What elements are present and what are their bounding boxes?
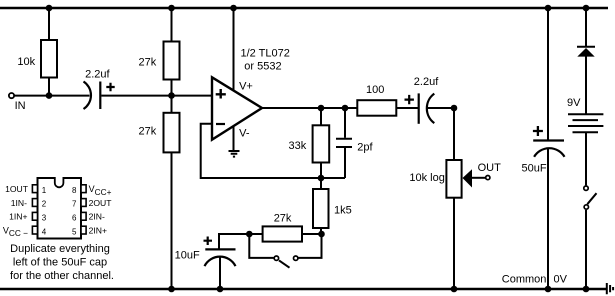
svg-text:8: 8 <box>72 186 77 195</box>
svg-text:left of the 50uF cap: left of the 50uF cap <box>13 257 107 269</box>
svg-text:27k: 27k <box>139 125 157 137</box>
svg-text:10uF: 10uF <box>175 249 200 261</box>
svg-text:V+: V+ <box>239 80 253 92</box>
svg-text:10k: 10k <box>17 56 35 68</box>
svg-text:1k5: 1k5 <box>334 205 352 217</box>
svg-text:Duplicate everything: Duplicate everything <box>10 243 110 255</box>
svg-text:Common: Common <box>502 274 547 286</box>
svg-text:1IN-: 1IN- <box>11 198 27 208</box>
svg-text:OUT: OUT <box>478 162 502 174</box>
svg-text:2OUT: 2OUT <box>89 198 113 208</box>
svg-text:2.2uf: 2.2uf <box>85 68 110 80</box>
svg-text:or 5532: or 5532 <box>244 60 281 72</box>
svg-text:0V: 0V <box>554 274 568 286</box>
svg-text:2IN+: 2IN+ <box>89 225 107 235</box>
svg-text:1IN+: 1IN+ <box>9 212 27 222</box>
svg-text:9V: 9V <box>567 97 581 109</box>
svg-text:5: 5 <box>72 227 77 236</box>
svg-text:4: 4 <box>42 227 47 236</box>
svg-text:2: 2 <box>42 200 47 209</box>
svg-text:IN: IN <box>15 100 26 112</box>
svg-text:3: 3 <box>42 214 47 223</box>
svg-text:33k: 33k <box>289 140 307 152</box>
svg-text:1OUT: 1OUT <box>5 184 29 194</box>
svg-text:1: 1 <box>42 186 47 195</box>
svg-text:100: 100 <box>366 84 384 96</box>
svg-text:2.2uf: 2.2uf <box>414 76 439 88</box>
svg-text:2IN-: 2IN- <box>89 212 105 222</box>
svg-text:2pf: 2pf <box>357 141 373 153</box>
svg-text:27k: 27k <box>274 213 292 225</box>
svg-text:1/2 TL072: 1/2 TL072 <box>241 48 290 60</box>
svg-text:for the other channel.: for the other channel. <box>10 270 114 282</box>
svg-text:50uF: 50uF <box>522 163 547 175</box>
svg-text:6: 6 <box>72 214 77 223</box>
svg-text:10k log: 10k log <box>409 172 444 184</box>
svg-text:V-: V- <box>239 127 250 139</box>
svg-text:7: 7 <box>72 200 77 209</box>
svg-text:27k: 27k <box>139 57 157 69</box>
